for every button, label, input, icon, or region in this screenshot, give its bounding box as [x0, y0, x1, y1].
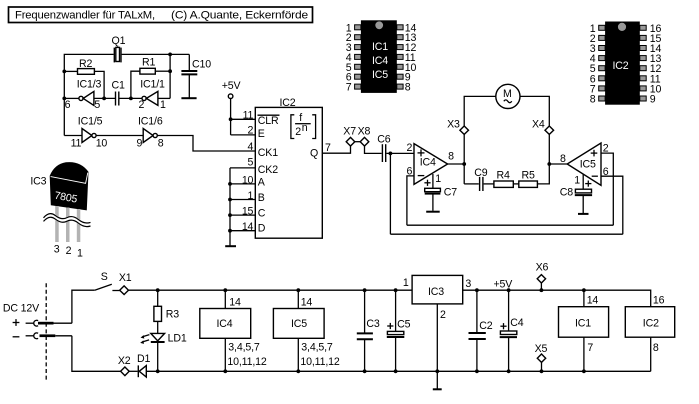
block IC2 — [625, 295, 674, 372]
voltage regulator IC3 package — [30, 163, 90, 260]
+5V terminal at counter — [222, 80, 256, 135]
svg-text:DC 12V: DC 12V — [3, 303, 40, 315]
svg-text:3,4,5,7: 3,4,5,7 — [228, 341, 260, 353]
svg-text:R2: R2 — [79, 58, 93, 70]
inverter IC1/3 — [64, 79, 115, 111]
svg-text:14: 14 — [242, 221, 254, 233]
wire IC1/1 input to top — [169, 54, 171, 98]
svg-text:D: D — [258, 223, 266, 235]
svg-text:11: 11 — [243, 110, 254, 122]
svg-text:IC1/1: IC1/1 — [140, 79, 165, 91]
svg-text:9: 9 — [137, 137, 143, 149]
svg-text:M: M — [503, 88, 512, 100]
capacitor C9 — [474, 167, 494, 191]
block IC4 — [200, 290, 267, 371]
svg-text:14: 14 — [229, 296, 241, 308]
ground under IC3 pin 2 — [433, 388, 442, 390]
DIP package IC2 — [590, 22, 662, 106]
op-amp IC5 — [560, 143, 609, 186]
wire feedback row — [464, 164, 479, 184]
wire IC4 plus node down — [389, 153, 391, 234]
svg-text:B: B — [258, 192, 265, 204]
svg-text:10,11,12: 10,11,12 — [300, 356, 340, 368]
svg-text:IC1/5: IC1/5 — [78, 116, 103, 128]
svg-text:X6: X6 — [536, 262, 549, 274]
pin 1 of IC5 — [574, 174, 591, 189]
svg-text:9: 9 — [650, 94, 656, 106]
wire oscillator top net — [64, 54, 189, 135]
svg-text:IC1/3: IC1/3 — [77, 79, 102, 91]
svg-text:R3: R3 — [166, 309, 180, 321]
svg-text:IC4: IC4 — [372, 55, 388, 67]
svg-text:16: 16 — [653, 295, 665, 307]
svg-text:D1: D1 — [137, 353, 151, 365]
wire outer cross rail — [390, 233, 622, 235]
motor M — [464, 84, 549, 126]
svg-text:IC2: IC2 — [643, 318, 659, 330]
DIP package IC1 IC4 IC5 — [346, 20, 417, 93]
svg-text:8: 8 — [448, 151, 454, 163]
svg-text:IC4: IC4 — [217, 318, 233, 330]
svg-text:14: 14 — [301, 296, 313, 308]
svg-text:CK1: CK1 — [258, 147, 278, 159]
svg-text:C2: C2 — [479, 320, 493, 332]
svg-text:3: 3 — [54, 243, 60, 255]
svg-text:S: S — [101, 271, 108, 283]
svg-text:X2: X2 — [118, 355, 131, 367]
dashed panel line — [45, 283, 47, 381]
svg-text:3: 3 — [465, 278, 471, 290]
diode D1 — [137, 353, 151, 377]
svg-text:(C) A.Quante, Eckernförde: (C) A.Quante, Eckernförde — [171, 9, 308, 21]
svg-text:LD1: LD1 — [168, 333, 187, 345]
svg-text:8: 8 — [560, 153, 566, 165]
ground under C7 — [426, 211, 440, 213]
svg-text:10: 10 — [96, 137, 108, 149]
svg-text:C8: C8 — [560, 186, 574, 198]
svg-text:5: 5 — [248, 156, 254, 168]
svg-text:2: 2 — [295, 126, 301, 138]
svg-text:15: 15 — [242, 206, 254, 218]
svg-text:E: E — [258, 128, 265, 140]
svg-text:5: 5 — [94, 99, 100, 111]
capacitor C5 — [387, 290, 411, 371]
svg-text:Q1: Q1 — [112, 35, 126, 47]
capacitor C3 — [357, 290, 380, 371]
LED LD1 — [140, 333, 187, 372]
resistor R2 — [64, 58, 104, 98]
inverter IC1/1 — [139, 79, 171, 111]
svg-text:8: 8 — [590, 94, 596, 106]
svg-text:1: 1 — [248, 190, 254, 202]
svg-text:X3: X3 — [447, 118, 460, 130]
svg-text:Q: Q — [310, 148, 318, 160]
svg-text:8: 8 — [653, 342, 659, 354]
svg-text:IC1/6: IC1/6 — [138, 116, 163, 128]
svg-text:R1: R1 — [142, 57, 156, 69]
svg-text:A: A — [258, 176, 266, 188]
svg-text:2: 2 — [139, 99, 145, 111]
wire GND bottom rail — [146, 370, 650, 372]
counter IC2 box — [255, 97, 322, 238]
svg-text:7: 7 — [346, 82, 352, 94]
svg-text:Frequenzwandler für TALxM,: Frequenzwandler für TALxM, — [15, 9, 155, 21]
svg-text:7: 7 — [325, 142, 331, 154]
plug plus terminal — [26, 320, 72, 326]
svg-text:C3: C3 — [366, 318, 380, 330]
pin 15 C — [230, 206, 266, 220]
wire +5V rail — [463, 290, 651, 307]
svg-text:n: n — [302, 122, 308, 134]
svg-text:14: 14 — [587, 295, 599, 307]
svg-text:X4: X4 — [532, 118, 545, 130]
svg-text:10,11,12: 10,11,12 — [227, 356, 267, 368]
svg-text:IC2: IC2 — [280, 97, 296, 109]
title box — [9, 7, 313, 23]
svg-text:+5V: +5V — [222, 80, 242, 92]
resistor R1 — [131, 57, 170, 99]
wire counter input bus — [229, 168, 231, 246]
svg-text:IC5: IC5 — [291, 318, 307, 330]
svg-text:8: 8 — [405, 82, 411, 94]
junction dots bottom section — [156, 288, 586, 373]
resistor R5 — [519, 164, 550, 187]
capacitor C6 — [377, 133, 414, 162]
svg-text:C6: C6 — [377, 133, 391, 145]
node X4 — [532, 118, 554, 164]
capacitor C7 — [425, 186, 458, 210]
ground under counter bus — [225, 245, 236, 247]
pin 7 Q output — [310, 142, 351, 160]
svg-text:2: 2 — [248, 125, 254, 137]
plug minus terminal — [26, 333, 72, 339]
svg-text:11: 11 — [71, 137, 82, 149]
svg-text:C: C — [258, 207, 266, 219]
svg-text:IC1: IC1 — [575, 318, 591, 330]
svg-text:C10: C10 — [192, 59, 211, 71]
node X8 — [358, 125, 382, 153]
node X3 — [447, 118, 468, 164]
switch S — [95, 271, 120, 291]
svg-text:1: 1 — [77, 247, 83, 259]
op-amp IC4 — [406, 142, 454, 184]
svg-text:2: 2 — [440, 309, 446, 321]
svg-text:C4: C4 — [510, 317, 524, 329]
pin 1 of IC4 — [424, 173, 441, 188]
svg-text:4: 4 — [248, 141, 254, 153]
svg-text:X8: X8 — [358, 125, 371, 137]
ground under C8 — [578, 213, 589, 215]
block IC5 — [273, 290, 340, 371]
svg-text:1: 1 — [435, 173, 441, 185]
regulator block IC3 — [403, 275, 472, 388]
svg-text:IC1: IC1 — [372, 41, 388, 53]
f/2^n block — [291, 112, 316, 139]
node X7 — [343, 125, 356, 146]
inverter IC1/6 — [137, 116, 164, 150]
svg-text:IC5: IC5 — [372, 69, 388, 81]
pin 1 B — [230, 190, 265, 204]
pin 2 E — [248, 125, 265, 141]
svg-text:2: 2 — [406, 142, 412, 154]
pin 14 D — [230, 221, 266, 234]
svg-text:7: 7 — [587, 342, 593, 354]
block IC1 — [559, 290, 609, 371]
wire plus to switch — [72, 290, 95, 323]
svg-text:R5: R5 — [522, 170, 536, 182]
wire 12V top rail — [129, 289, 413, 291]
pin 4 CK1 — [248, 141, 279, 159]
resistor R3 — [154, 290, 179, 333]
svg-text:C9: C9 — [474, 167, 488, 179]
wire X7 to X8 — [355, 141, 361, 143]
wire inner cross rail — [407, 224, 613, 226]
svg-text:CK2: CK2 — [258, 164, 278, 176]
wire IC1/5 out to IC1/6 in — [96, 135, 143, 137]
svg-text:6: 6 — [65, 99, 71, 111]
svg-text:+5V: +5V — [494, 278, 514, 290]
pin 11 CLR — [243, 110, 280, 128]
wire X2 to D1 — [129, 370, 137, 372]
node X1 — [119, 272, 132, 295]
svg-text:IC4: IC4 — [420, 157, 436, 169]
svg-text:C5: C5 — [397, 319, 411, 331]
svg-text:3,4,5,7: 3,4,5,7 — [301, 341, 333, 353]
svg-text:X1: X1 — [119, 272, 132, 284]
wire IC4 output — [448, 163, 465, 165]
svg-text:CLR: CLR — [258, 115, 279, 127]
capacitor C1 — [112, 80, 143, 106]
capacitor C10 — [181, 54, 211, 97]
svg-text:R4: R4 — [497, 170, 511, 182]
wire minus to X2 — [72, 336, 121, 372]
svg-text:X7: X7 — [343, 125, 356, 137]
wire IC1/6 out to CK1 — [157, 136, 255, 152]
svg-text:IC2: IC2 — [613, 60, 629, 72]
capacitor C2 — [469, 290, 493, 371]
junction dots top section — [62, 53, 551, 233]
wire IC5 plus input — [601, 153, 613, 225]
svg-text:C1: C1 — [112, 80, 126, 92]
node X6 — [536, 262, 549, 291]
pin 10 A — [230, 174, 266, 188]
capacitor C8 — [560, 186, 592, 213]
svg-text:IC5: IC5 — [580, 159, 596, 171]
svg-text:IC3: IC3 — [428, 286, 444, 298]
svg-text:1: 1 — [574, 174, 580, 186]
wire IC4 minus input — [407, 176, 414, 225]
node X5 — [535, 343, 548, 371]
node X2 — [118, 355, 131, 376]
wire IC5 minus input — [601, 176, 623, 234]
crystal Q1 — [112, 35, 126, 62]
inverter IC1/5 — [64, 116, 107, 150]
svg-text:2: 2 — [66, 245, 72, 257]
svg-text:C7: C7 — [444, 186, 458, 198]
svg-text:1: 1 — [403, 277, 409, 289]
svg-text:IC3: IC3 — [30, 175, 46, 187]
wire IC5 output — [549, 163, 567, 165]
resistor R4 — [494, 170, 519, 188]
capacitor C4 — [500, 290, 524, 371]
DC 12V input labels — [3, 303, 40, 337]
svg-text:X5: X5 — [535, 343, 548, 355]
svg-text:8: 8 — [158, 137, 164, 149]
pin 5 CK2 — [230, 156, 278, 176]
ground under C10 — [181, 97, 196, 99]
svg-text:1: 1 — [160, 99, 166, 111]
